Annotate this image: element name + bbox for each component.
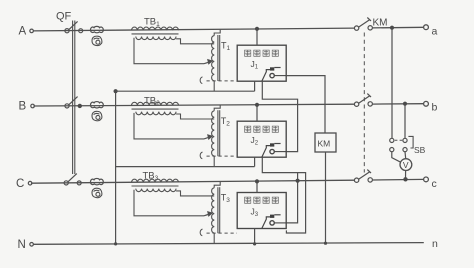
- pseudo text sampling control J3: [245, 197, 279, 203]
- wire voltmeter branch from line b: [404, 104, 406, 139]
- icon below fuse FU1: [92, 36, 102, 45]
- node J3 bottom on rail N: [253, 242, 256, 245]
- button SB left contact: [390, 138, 394, 151]
- wire KM coil bottom to rail N: [325, 152, 327, 243]
- node J1 on rail A: [255, 27, 259, 31]
- svg-text:V: V: [403, 160, 409, 170]
- node J2 on rail B: [255, 103, 259, 107]
- wire T1 bottom to neutral bus: [213, 81, 215, 91]
- terminal N: [30, 243, 34, 247]
- wire voltmeter branch from line a: [391, 28, 393, 139]
- node phase A bottom junction: [114, 89, 118, 93]
- svg-text:a: a: [432, 26, 438, 38]
- neutral bus vertical from phase A bottom line to rail N: [115, 91, 117, 244]
- transformer TB2: [132, 102, 215, 140]
- svg-text:N: N: [18, 239, 26, 251]
- wire J1 chain to J2 contact: [262, 81, 297, 151]
- wire phase B bottom line: [116, 166, 255, 168]
- wire rail C right end: [372, 178, 423, 181]
- wire rail A: [33, 28, 354, 31]
- contactor KM contact on line a: [354, 18, 372, 31]
- svg-text:b: b: [432, 102, 438, 114]
- wire SB right to voltmeter: [404, 152, 407, 159]
- sampling control box J2: [237, 121, 286, 157]
- svg-text:C: C: [16, 178, 24, 190]
- regulator T3 winding: [212, 182, 221, 233]
- wire J1 bottom to neutral bus line: [254, 81, 256, 91]
- terminal a: [424, 25, 429, 30]
- sampling control box J3: [237, 193, 286, 229]
- breaker QF pole A right circle: [79, 29, 83, 33]
- terminal b: [424, 101, 429, 106]
- contactor coil KM box: [315, 133, 336, 152]
- svg-text:B: B: [19, 101, 27, 113]
- icon below fuse FU2: [92, 111, 102, 120]
- terminal A: [30, 29, 34, 33]
- node J3 on rail C: [255, 179, 259, 183]
- wire rail B right end: [372, 103, 423, 105]
- button SB actuator bracket: [408, 136, 413, 148]
- servo link dashes T2: [200, 152, 237, 159]
- regulator T1 winding: [212, 30, 221, 81]
- wire rail N: [33, 243, 423, 245]
- breaker QF pole C right circle: [77, 181, 81, 185]
- icon below fuse FU3: [92, 188, 102, 197]
- transformer TB3: [132, 179, 215, 217]
- wire T3 bottom to rail N: [213, 233, 215, 244]
- wire J1 contact to KM coil: [286, 76, 325, 133]
- breaker QF pole C: [64, 174, 77, 185]
- button SB right contact: [403, 138, 407, 151]
- wire SB left to voltmeter: [392, 152, 401, 163]
- terminal B: [31, 104, 35, 108]
- KM linkage dashed: [363, 33, 365, 173]
- wire rail C: [31, 180, 355, 183]
- breaker QF pole B: [65, 97, 78, 108]
- pseudo text sampling control J1: [245, 50, 279, 56]
- terminal C: [28, 181, 32, 185]
- svg-text:A: A: [19, 26, 27, 38]
- breaker QF linkage bar: [73, 21, 75, 175]
- svg-text:KM: KM: [318, 139, 331, 149]
- breaker QF pole A: [65, 21, 78, 32]
- transformer TB1: [132, 27, 215, 65]
- pseudo text sampling control J2: [245, 126, 279, 132]
- svg-text:QF: QF: [56, 11, 72, 23]
- svg-text:SB: SB: [414, 145, 426, 155]
- contactor KM contact on line b: [354, 94, 372, 107]
- wire chain branch to J3 contact: [286, 173, 297, 223]
- node branch on line b: [403, 102, 407, 106]
- node voltmeter on rail c: [403, 177, 407, 181]
- node KM bottom on rail N: [324, 242, 327, 245]
- terminal c: [424, 177, 429, 182]
- fuse FU1 on line A: [91, 26, 104, 32]
- fuse FU3 on line C: [91, 178, 104, 184]
- button SB linkage dash: [395, 139, 403, 141]
- node neutral bus at rail N: [114, 242, 117, 245]
- servo link dashes T3: [200, 229, 237, 236]
- wire voltmeter to rail c: [405, 171, 407, 180]
- breaker QF pole B right dot: [78, 104, 82, 108]
- wire J1 top to rail A: [256, 29, 258, 45]
- svg-text:KM: KM: [373, 18, 388, 29]
- fuse FU2 on line B: [91, 102, 104, 108]
- regulator T2 winding: [212, 105, 221, 156]
- servo link dashes T1: [200, 77, 237, 84]
- node chain on rail C: [296, 179, 300, 183]
- contactor KM contact on line c: [354, 170, 372, 183]
- svg-text:n: n: [432, 238, 438, 250]
- wire phase A bottom line: [116, 90, 255, 92]
- wire J2 chain down: [262, 157, 305, 233]
- wire J2 top to rail B: [256, 105, 258, 121]
- wire J3 bottom to rail N: [254, 229, 256, 244]
- svg-text:c: c: [432, 178, 437, 190]
- sampling control box J1: [237, 45, 286, 81]
- wire J2 bottom to neutral bus line: [254, 157, 256, 166]
- voltmeter V: [400, 159, 412, 171]
- wire T2 bottom to neutral bus: [213, 156, 215, 166]
- wire rail A right end: [372, 26, 423, 29]
- wire J3 top to rail C: [256, 181, 258, 192]
- wire rail B: [33, 104, 354, 106]
- node branch on line a: [390, 26, 394, 30]
